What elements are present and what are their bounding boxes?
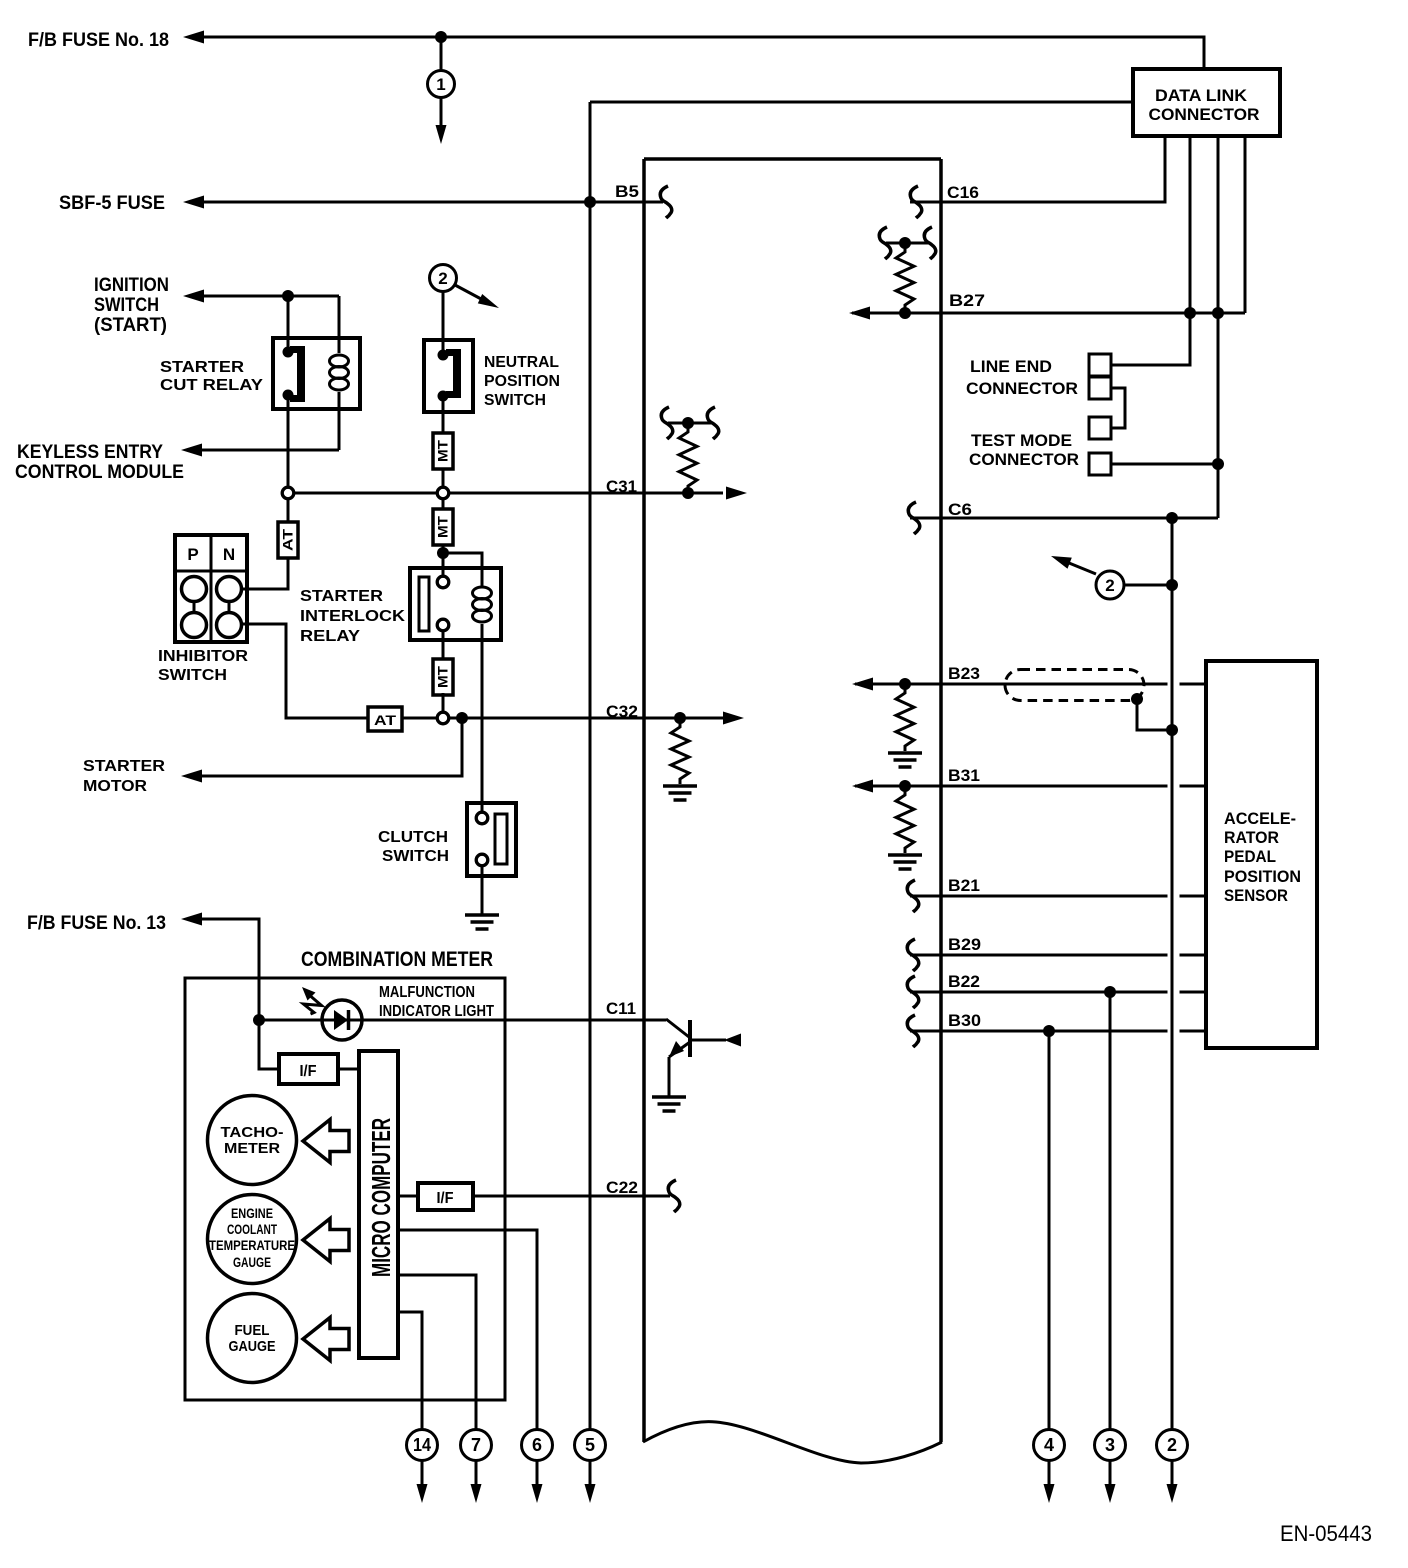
- accelerator pedal position sensor box: [1206, 661, 1317, 1048]
- svg-text:RATOR: RATOR: [1224, 828, 1279, 847]
- block arrow to tachometer: [303, 1120, 349, 1163]
- pin break mark C22: [668, 1180, 679, 1212]
- svg-text:MT: MT: [436, 439, 451, 462]
- wire C16-B27 internal resistor link bar: [886, 242, 928, 245]
- MT box 1: [433, 433, 453, 469]
- arrow down from circled 3: [1105, 1484, 1116, 1503]
- resistor B23 internal: [896, 688, 914, 751]
- transistor Q1 collector diagonal: [666, 1019, 689, 1037]
- svg-text:ACCELE-: ACCELE-: [1224, 809, 1296, 828]
- svg-text:P: P: [187, 545, 198, 564]
- node ignition line / contact branch: [282, 290, 294, 302]
- svg-text:STARTER: STARTER: [160, 359, 244, 376]
- svg-text:2: 2: [1105, 576, 1114, 595]
- svg-text:N: N: [223, 545, 235, 564]
- arrow to starter motor: [181, 770, 202, 783]
- wire starter cut relay coil to keyless line: [338, 409, 341, 450]
- node C32 / internal resistor junction: [674, 712, 686, 724]
- svg-text:CONNECTOR: CONNECTOR: [966, 379, 1078, 398]
- svg-text:I/F: I/F: [437, 1190, 454, 1207]
- clutch switch blade: [495, 814, 507, 864]
- wire B22 line right of bus: [1180, 991, 1207, 994]
- wire accelerator sensor ground bus (to circled 2 bottom): [1171, 518, 1174, 1429]
- node junction bus / SBF-5 line: [584, 196, 596, 208]
- test mode connector square lower: [1089, 453, 1111, 475]
- svg-text:C6: C6: [948, 500, 972, 519]
- inhibitor switch divider vertical: [210, 535, 213, 642]
- svg-text:I/F: I/F: [300, 1063, 317, 1080]
- wire below circled 5: [589, 1461, 592, 1489]
- arrow down-right from circled 2: [455, 285, 483, 300]
- svg-text:ENGINE: ENGINE: [231, 1206, 273, 1221]
- break mark right of C31 resistor: [707, 407, 718, 439]
- svg-text:C11: C11: [606, 999, 636, 1018]
- transistor Q1 base bar: [688, 1020, 692, 1057]
- node B23 / resistor junction: [899, 678, 911, 690]
- svg-text:TEST MODE: TEST MODE: [971, 431, 1072, 450]
- wire C22 line: [473, 1195, 670, 1198]
- arrow to ignition switch: [183, 290, 204, 303]
- combination meter box: [185, 978, 505, 1400]
- svg-text:RELAY: RELAY: [300, 628, 360, 645]
- wire below circled 4: [1048, 1461, 1051, 1489]
- svg-text:7: 7: [471, 1435, 481, 1455]
- engine coolant temperature gauge circle: [208, 1195, 297, 1284]
- wire C6 line: [910, 517, 1218, 520]
- wire transistor emitter to ground: [668, 1057, 671, 1096]
- wire C31 node to AT box 1: [287, 499, 290, 522]
- svg-text:SWITCH: SWITCH: [94, 295, 159, 316]
- starter interlock relay box: [410, 568, 501, 640]
- svg-text:SWITCH: SWITCH: [158, 667, 227, 684]
- data link connector box: [1133, 69, 1280, 136]
- circled reference 2 (right): [1096, 571, 1124, 599]
- neutral position switch contact bottom: [438, 391, 449, 402]
- starter cut relay contact bottom: [283, 390, 294, 401]
- arrow to keyless entry control module: [181, 444, 202, 457]
- starter cut relay coil: [338, 352, 341, 355]
- wire ignition switch (start) line: [204, 295, 339, 298]
- wire below circled 3: [1109, 1461, 1112, 1489]
- svg-text:INDICATOR LIGHT: INDICATOR LIGHT: [379, 1003, 494, 1020]
- break mark left of C31 resistor: [661, 407, 672, 439]
- arrow C31 into ECM: [726, 487, 747, 500]
- ground clutch switch: [465, 913, 499, 917]
- wire B22 line left of bus: [910, 991, 1168, 994]
- LED diode triangle: [334, 1010, 348, 1030]
- node shield drain dot: [1131, 693, 1143, 705]
- wire C32 line: [402, 717, 723, 720]
- pin break mark B30: [907, 1015, 918, 1047]
- svg-text:GAUGE: GAUGE: [229, 1338, 276, 1355]
- node C31 resistor top: [682, 417, 694, 429]
- wire I/F box1 to micro computer: [338, 1068, 359, 1071]
- svg-text:SWITCH: SWITCH: [382, 848, 449, 865]
- svg-text:CONNECTOR: CONNECTOR: [1149, 105, 1260, 124]
- svg-text:EN-05443: EN-05443: [1280, 1521, 1372, 1546]
- svg-text:IGNITION: IGNITION: [94, 275, 169, 296]
- node B22 branch junction: [1104, 986, 1116, 998]
- svg-text:B30: B30: [948, 1011, 981, 1030]
- svg-text:TACHO-: TACHO-: [221, 1124, 284, 1141]
- wire MT box 1 to C31 node: [442, 469, 445, 487]
- wire starter motor branch: [202, 718, 462, 776]
- svg-text:B21: B21: [948, 876, 980, 895]
- wire micro computer output to circled 7: [398, 1275, 476, 1429]
- circled reference 5 (bottom): [575, 1430, 606, 1461]
- node B27/pin2 junction: [1184, 307, 1196, 319]
- node interlock contact/coil junction: [437, 547, 449, 559]
- svg-text:MOTOR: MOTOR: [83, 778, 147, 795]
- wire circled 2 to accelerator bus: [1124, 584, 1172, 587]
- inhibitor contact P link: [193, 602, 196, 613]
- svg-text:1: 1: [436, 75, 445, 94]
- arrow down from circled 7: [471, 1484, 482, 1503]
- svg-text:TEMPERATURE: TEMPERATURE: [209, 1238, 295, 1253]
- svg-text:(START): (START): [94, 315, 167, 336]
- starter interlock relay blade: [419, 577, 429, 631]
- arrow down from circled 14: [417, 1484, 428, 1503]
- circled reference 14 (bottom): [407, 1430, 438, 1461]
- wire data link connector pin 2 riser: [1111, 136, 1190, 365]
- wire MT box 2 to interlock node: [442, 545, 445, 576]
- svg-text:STARTER: STARTER: [300, 588, 383, 605]
- node starter motor junction: [456, 712, 468, 724]
- I/F box 1: [279, 1054, 338, 1084]
- svg-text:CONNECTOR: CONNECTOR: [969, 450, 1079, 469]
- inhibitor contact N top: [217, 577, 242, 602]
- svg-text:COMBINATION METER: COMBINATION METER: [301, 948, 493, 971]
- wire below circled 2: [1171, 1461, 1174, 1489]
- svg-text:COOLANT: COOLANT: [227, 1222, 278, 1237]
- connector node circle (neutral switch / C31): [437, 487, 449, 499]
- wire B23 line right of bus: [1180, 683, 1207, 686]
- svg-text:6: 6: [532, 1435, 542, 1455]
- wire B23 line left of bus: [855, 683, 1168, 686]
- ground B23 internal: [888, 751, 922, 755]
- starter interlock relay coil: [481, 585, 484, 586]
- wire inhibitor bottom to AT box 2: [243, 624, 368, 718]
- svg-text:MT: MT: [436, 665, 451, 688]
- wire AT box1 to inhibitor switch: [243, 558, 288, 589]
- svg-text:2: 2: [1167, 1435, 1177, 1455]
- pin break mark C6: [908, 502, 919, 534]
- svg-text:B29: B29: [948, 935, 981, 954]
- node circled2 / bus junction: [1166, 579, 1178, 591]
- pin break mark B29: [907, 939, 918, 971]
- node B27 / internal resistor junction: [899, 307, 911, 319]
- svg-text:MT: MT: [436, 515, 451, 538]
- pin break mark B21: [907, 880, 918, 912]
- ECM box left edge: [642, 159, 646, 1442]
- svg-text:POSITION: POSITION: [484, 373, 560, 390]
- svg-text:CLUTCH: CLUTCH: [378, 829, 448, 846]
- svg-text:SENSOR: SENSOR: [1224, 886, 1288, 905]
- break mark right of internal resistor: [924, 227, 935, 259]
- node B27/pin3 junction: [1212, 307, 1224, 319]
- wire B31 line right of bus: [1180, 785, 1207, 788]
- node B30 branch junction: [1043, 1025, 1055, 1037]
- I/F box 2: [418, 1183, 473, 1210]
- arrow down from circled 6: [532, 1484, 543, 1503]
- svg-text:C32: C32: [606, 702, 638, 721]
- MT box 2: [433, 509, 453, 545]
- svg-text:METER: METER: [224, 1140, 280, 1157]
- wire C31 internal resistor link bar: [668, 422, 711, 425]
- svg-text:2: 2: [438, 269, 447, 288]
- wire MT box 3 to C32 node: [442, 693, 445, 712]
- svg-text:14: 14: [413, 1435, 431, 1455]
- svg-text:LINE END: LINE END: [970, 357, 1052, 376]
- svg-text:F/B FUSE No. 13: F/B FUSE No. 13: [27, 913, 166, 934]
- arrow to SBF-5 fuse: [183, 196, 204, 209]
- wire starter cut relay contact to C31 node: [287, 395, 290, 487]
- circled reference 7 (bottom): [461, 1430, 492, 1461]
- inhibitor switch divider horizontal: [175, 570, 247, 573]
- starter cut relay box: [273, 338, 360, 409]
- wire main vertical bus to circled 5: [589, 102, 592, 1429]
- wire clutch switch to ground: [481, 866, 484, 915]
- wire C31 node to MT box 2: [442, 499, 445, 509]
- svg-text:STARTER: STARTER: [83, 758, 165, 775]
- pin break mark C16: [910, 186, 921, 218]
- svg-text:CUT RELAY: CUT RELAY: [160, 377, 263, 394]
- micro computer box: [359, 1051, 398, 1358]
- wire test mode connector to pin3 riser: [1111, 463, 1218, 466]
- ECM box top edge: [644, 157, 941, 161]
- inhibitor contact P top: [182, 577, 207, 602]
- wire shield drain to bus: [1137, 699, 1172, 730]
- svg-text:DATA LINK: DATA LINK: [1155, 86, 1248, 105]
- svg-text:INTERLOCK: INTERLOCK: [300, 608, 406, 625]
- resistor B31 internal: [896, 790, 914, 853]
- arrow to F/B fuse No.18: [183, 31, 204, 44]
- svg-text:F/B FUSE No. 18: F/B FUSE No. 18: [28, 30, 169, 51]
- starter interlock contact top circle: [437, 576, 449, 588]
- wire F/B fuse No.13 feed: [202, 919, 279, 1069]
- ground B31 internal: [888, 853, 922, 857]
- neutral position switch contact top: [438, 350, 449, 361]
- wire B31 line left of bus: [855, 785, 1168, 788]
- starter cut relay contact top: [283, 347, 294, 358]
- arrow C32 into ECM: [723, 712, 744, 725]
- wire B22 branch to circled 3: [1109, 992, 1112, 1429]
- inhibitor switch box: [175, 535, 247, 642]
- wire B30 line right of bus: [1180, 1030, 1207, 1033]
- svg-text:B22: B22: [948, 972, 980, 991]
- wire circled 2 to neutral position switch: [442, 292, 445, 353]
- block arrow to coolant gauge: [303, 1219, 349, 1262]
- wire F/B fuse No.18 feed line to data link connector: [203, 37, 1204, 69]
- LED lightning arrow: [302, 987, 316, 1001]
- arrow down from circled 2: [1167, 1484, 1178, 1503]
- wire below circled 14: [421, 1461, 424, 1489]
- transistor Q1 emitter diagonal: [669, 1042, 690, 1057]
- node test mode wire / pin3 riser: [1212, 458, 1224, 470]
- node C6 / accelerator bus junction: [1166, 512, 1178, 524]
- shield capsule dashed outline (B23): [1005, 670, 1144, 701]
- circled reference 3 (bottom): [1095, 1430, 1126, 1461]
- pin break mark B5: [660, 186, 671, 218]
- ECM box right edge: [939, 159, 943, 1442]
- wire malfunction indicator light line C11: [259, 1019, 666, 1022]
- node internal resistor top: [899, 237, 911, 249]
- wire below circled 1: [440, 98, 443, 127]
- ground transistor emitter: [652, 1095, 686, 1099]
- node shield drain / bus junction: [1166, 724, 1178, 736]
- resistor C32 internal: [671, 722, 689, 784]
- node B31 / resistor junction: [899, 780, 911, 792]
- wire data link connector pin 3 riser: [1217, 136, 1220, 518]
- wire coil branch into starter cut relay: [338, 296, 341, 353]
- wire neutral switch to MT box 1: [442, 396, 445, 433]
- svg-text:C31: C31: [606, 477, 637, 496]
- clutch switch box: [467, 803, 516, 876]
- svg-text:PEDAL: PEDAL: [1224, 847, 1276, 866]
- wire micro computer output to circled 14: [398, 1312, 422, 1429]
- wire contact branch down into starter cut relay: [287, 296, 290, 349]
- line end connector square 1: [1089, 354, 1111, 376]
- block arrow to fuel gauge: [303, 1318, 349, 1361]
- connector node circle (C32): [437, 712, 449, 724]
- svg-text:GAUGE: GAUGE: [233, 1255, 271, 1270]
- wire stub down to circled 1: [440, 37, 443, 71]
- arrow down from circled 4: [1044, 1484, 1055, 1503]
- wire below circled 7: [475, 1461, 478, 1489]
- wire keyless entry line: [202, 449, 339, 452]
- svg-text:4: 4: [1044, 1435, 1054, 1455]
- arrow B31 to left: [852, 780, 873, 793]
- svg-text:C16: C16: [947, 183, 979, 202]
- AT box 2: [368, 707, 402, 731]
- wire SBF-5 / B5 line: [204, 201, 663, 204]
- svg-text:5: 5: [585, 1435, 595, 1455]
- wire B29 line right of bus: [1180, 954, 1207, 957]
- starter cut relay contact blade: [290, 346, 305, 402]
- wire node to interlock coil: [443, 553, 482, 586]
- svg-text:B23: B23: [948, 664, 980, 683]
- MT box 3: [433, 659, 453, 695]
- wire micro computer to I/F box 2: [398, 1195, 418, 1198]
- LED malfunction indicator lamp circle: [322, 1000, 362, 1040]
- neutral position switch box: [424, 340, 473, 412]
- wire B21 line left of bus: [910, 895, 1168, 898]
- node junction on F/B fuse line: [435, 31, 447, 43]
- svg-text:CONTROL MODULE: CONTROL MODULE: [15, 462, 184, 483]
- clutch switch contact bottom circle: [476, 854, 488, 866]
- connector node circle (starter cut relay / C31): [282, 487, 294, 499]
- wire from vertical bus to data link connector left pin: [590, 101, 1133, 104]
- node MIL branch junction: [253, 1014, 265, 1026]
- AT box 1: [278, 522, 298, 558]
- circled reference 4 (bottom): [1034, 1430, 1065, 1461]
- circled reference 1: [428, 71, 455, 98]
- clutch switch contact top circle: [476, 812, 488, 824]
- wire C16 line from ECM to data link connector pin 1: [910, 136, 1165, 202]
- node C31 / internal resistor junction: [682, 487, 694, 499]
- svg-text:B5: B5: [615, 182, 639, 201]
- tachometer circle: [208, 1096, 297, 1185]
- svg-text:NEUTRAL: NEUTRAL: [484, 354, 559, 371]
- wire B30 branch to circled 4: [1048, 1031, 1051, 1429]
- wire B30 line left of bus: [910, 1030, 1168, 1033]
- test mode connector square upper: [1089, 417, 1111, 439]
- circled reference 2 (bottom): [1157, 1430, 1188, 1461]
- svg-text:SBF-5 FUSE: SBF-5 FUSE: [59, 193, 165, 214]
- wire below circled 6: [536, 1461, 539, 1489]
- wire B27 line: [852, 312, 1245, 315]
- arrow up-left from circled 2: [1069, 563, 1096, 574]
- ground C32 internal: [663, 784, 697, 788]
- pin break mark B22: [907, 976, 918, 1008]
- arrow down from circled 5: [585, 1484, 596, 1503]
- inhibitor contact N bottom: [217, 613, 242, 638]
- wire micro computer output to circled 6: [398, 1230, 537, 1429]
- svg-text:FUEL: FUEL: [235, 1322, 270, 1339]
- line end connector square 2: [1089, 377, 1111, 399]
- wire interlock coil to clutch switch: [481, 634, 484, 812]
- fuel gauge circle: [208, 1294, 297, 1383]
- inhibitor contact P bottom: [182, 613, 207, 638]
- svg-text:POSITION: POSITION: [1224, 867, 1301, 886]
- wire B21 line right of bus: [1180, 895, 1207, 898]
- arrow to F/B fuse No.13: [181, 913, 202, 926]
- resistor C16 to B27 (internal): [896, 247, 914, 310]
- wire interlock to MT box 3: [442, 631, 445, 659]
- inhibitor contact N link: [228, 602, 231, 613]
- svg-text:B27: B27: [949, 291, 985, 310]
- break mark left of internal resistor: [879, 227, 890, 259]
- neutral position switch blade: [446, 349, 461, 398]
- svg-text:MICRO COMPUTER: MICRO COMPUTER: [366, 1118, 396, 1277]
- arrow B27 to left: [849, 307, 870, 320]
- circled reference 6 (bottom): [522, 1430, 553, 1461]
- wire B29 line left of bus: [910, 954, 1168, 957]
- svg-text:3: 3: [1105, 1435, 1115, 1455]
- svg-text:C22: C22: [606, 1178, 638, 1197]
- arrow down from circled 1: [436, 125, 447, 144]
- svg-text:AT: AT: [374, 713, 397, 728]
- arrow B23 to left: [852, 678, 873, 691]
- ECM box wavy bottom edge: [643, 1422, 942, 1463]
- wire line end square 2 to test mode square: [1111, 388, 1125, 428]
- svg-text:AT: AT: [281, 528, 296, 551]
- circled reference 2 (neutral position switch): [430, 265, 457, 292]
- LED diode cathode bar: [347, 1010, 351, 1030]
- starter interlock contact bottom circle: [437, 619, 449, 631]
- wire data link connector pin 4 riser: [1244, 136, 1247, 313]
- svg-text:MALFUNCTION: MALFUNCTION: [379, 984, 475, 1001]
- svg-text:INHIBITOR: INHIBITOR: [158, 648, 248, 665]
- transistor Q1 base line with arrow: [690, 1039, 726, 1042]
- svg-text:SWITCH: SWITCH: [484, 392, 546, 409]
- resistor C31 internal: [679, 427, 697, 491]
- svg-text:KEYLESS ENTRY: KEYLESS ENTRY: [17, 442, 163, 463]
- wire C31 line: [294, 492, 723, 495]
- svg-text:B31: B31: [948, 766, 980, 785]
